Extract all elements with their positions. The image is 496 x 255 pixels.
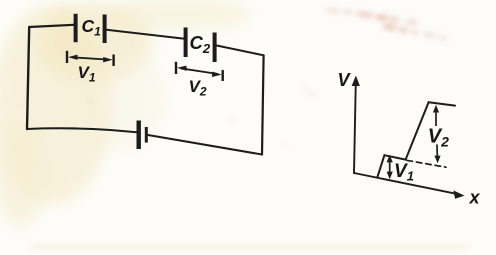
plateau 1	[384, 155, 405, 159]
dimension arrow V2	[176, 62, 223, 81]
dashed continuation	[407, 160, 446, 167]
wire C2 to top-right corner	[217, 46, 264, 56]
wire bottom-left to battery	[27, 128, 137, 132]
dimension arrow V1	[67, 51, 114, 66]
wire C1 to C2	[107, 30, 184, 39]
svg-text:x: x	[469, 188, 481, 208]
rise V2	[406, 102, 429, 159]
plateau 2	[429, 102, 455, 105]
graph V2 double arrow (split by label)	[433, 105, 441, 163]
wire left side	[27, 27, 29, 129]
wire battery to bottom-right corner	[148, 135, 262, 155]
svg-text:V: V	[338, 70, 352, 90]
wire top-left to C1	[29, 25, 74, 27]
pink smudged print-through top right	[60, 7, 447, 146]
capacitor C1	[76, 14, 105, 43]
x axis	[354, 173, 460, 195]
V axis	[354, 81, 356, 173]
graph V1 double arrow	[387, 155, 393, 180]
axis arrowheads	[352, 76, 465, 199]
battery	[139, 121, 147, 150]
potential curve: rise V1	[377, 155, 384, 177]
wire right side	[262, 55, 264, 154]
capacitor C2	[186, 28, 215, 63]
